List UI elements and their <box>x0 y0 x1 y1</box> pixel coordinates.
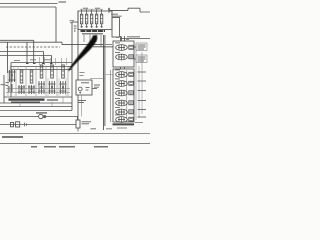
figure caption text <box>2 136 23 138</box>
crystal calibrator box <box>76 80 92 95</box>
wire bank top rail <box>80 8 103 10</box>
crystal Y1 <box>80 9 82 26</box>
oscillator label second line <box>82 33 103 35</box>
wire rf box inner y66 <box>11 66 72 68</box>
crystal Y5 <box>100 9 102 26</box>
wire y38 right <box>122 37 151 41</box>
wire into IF lower box <box>90 75 113 79</box>
wire vertical x78 <box>77 11 79 120</box>
wire link to x78 <box>72 21 78 23</box>
coil can T3 <box>40 65 43 78</box>
page footer rule upper <box>0 133 150 135</box>
wire drop x43 <box>43 52 45 65</box>
label near bus bottom <box>91 128 97 130</box>
tube V2 <box>28 85 35 94</box>
antenna arrow mark <box>108 8 110 13</box>
capacitor C1 marks <box>74 26 77 32</box>
can top wire pairs <box>40 57 67 65</box>
wire x56 vertical <box>55 7 57 42</box>
tube V201 <box>115 43 133 50</box>
cap tick pairs top <box>26 63 53 65</box>
calibrator contact dot <box>79 92 81 94</box>
IF strip bottom label <box>113 123 135 125</box>
wire antenna in x7 <box>7 42 9 73</box>
coil can T1 <box>20 70 23 83</box>
label below IF strip 2 <box>117 127 127 129</box>
fine vertical wires texture <box>8 66 68 96</box>
label right of calibrator <box>94 85 100 87</box>
label left of switch <box>78 101 86 103</box>
stubs box bottom to bus <box>20 97 63 107</box>
RF deck box <box>4 22 72 111</box>
wire stubs between boxes <box>121 67 125 69</box>
wire rf inner y92 <box>6 92 70 94</box>
coil can T5 <box>62 65 65 78</box>
wire drop x34 <box>33 40 35 64</box>
label mid page <box>92 88 97 90</box>
RF deck label strip row2 <box>11 101 40 103</box>
capacitor marks above calibrator <box>80 73 85 76</box>
wire long bus y47 solid right <box>93 46 113 48</box>
wire long bus y42 <box>0 42 104 44</box>
label right bottom <box>135 122 143 124</box>
fine vertical wires texture 2 <box>10 66 66 96</box>
antenna trim network <box>0 122 76 127</box>
wire long bus y55 <box>0 55 52 57</box>
wire rf box inner y69 <box>11 69 72 71</box>
antenna coil L1 <box>9 70 16 82</box>
tube V505 <box>115 107 146 115</box>
right vertical wires <box>136 44 142 120</box>
calibrator trimmer marks <box>86 88 90 91</box>
label right of switch <box>82 122 92 124</box>
tube V5 <box>60 81 67 94</box>
IF box upper <box>113 41 134 67</box>
tube V3 <box>38 81 45 94</box>
bus line pair <box>103 35 105 130</box>
wire top border lower <box>0 6 56 8</box>
crystal Y4 <box>95 9 97 26</box>
tube V1 <box>18 85 25 94</box>
antenna relay K1 <box>112 18 120 38</box>
wire long bus y40 <box>0 39 34 41</box>
crystal Y2 <box>85 9 87 26</box>
oscillator bank box <box>78 11 112 30</box>
label relay <box>113 16 122 17</box>
phono jack contact <box>43 115 45 118</box>
label below IF strip 1 <box>106 128 112 130</box>
wire y103 <box>0 102 72 104</box>
footer part number text <box>31 146 108 148</box>
label PHONO text <box>36 112 47 113</box>
wire y106 <box>0 106 72 108</box>
RF deck label strip <box>9 98 45 100</box>
oscillator label strip <box>81 30 106 32</box>
calibrator title text <box>81 82 89 84</box>
label small above box <box>14 59 50 62</box>
label stub ticks <box>116 38 129 40</box>
tube dark dots <box>11 74 64 90</box>
function switch S1 <box>76 120 80 128</box>
mixer info text 2 <box>138 57 146 61</box>
stub below switch <box>77 128 79 132</box>
label J-marks <box>70 21 75 23</box>
wire top border upper <box>0 3 58 5</box>
tube V4 <box>49 81 56 94</box>
bus line inner <box>110 70 112 122</box>
contact row <box>81 26 103 28</box>
wire drop x27 <box>26 42 28 64</box>
wire drop x51 <box>51 56 53 65</box>
wire y117 phono line <box>0 117 78 121</box>
phono jack J2 <box>39 114 43 118</box>
label balanced antenna <box>127 36 140 37</box>
coil can T4 <box>51 65 54 78</box>
mixer info box 2 <box>136 55 147 63</box>
wire stubs bank bottom <box>84 35 101 47</box>
tube V202 <box>115 52 133 59</box>
page footer rule lower <box>0 143 150 145</box>
tube V502 <box>115 79 146 87</box>
can caps dark <box>20 65 65 83</box>
tube V506 <box>115 115 146 123</box>
tube V504 <box>115 98 146 106</box>
label bank top <box>83 7 100 9</box>
IF box lower <box>113 69 134 122</box>
RF deck label right text <box>47 99 58 101</box>
wire long bus y51 <box>0 51 44 53</box>
wire calibrator down <box>81 95 83 117</box>
text block left of IF <box>105 45 112 47</box>
linkage dashed y47 <box>6 46 60 48</box>
wire y110 <box>0 110 58 112</box>
label top title <box>59 1 67 3</box>
calibrator tube circle <box>78 87 82 91</box>
inner column wire <box>126 70 128 118</box>
tube V501 <box>115 70 146 78</box>
wire rf inner y88 <box>6 88 70 90</box>
crystal Y3 <box>90 9 92 26</box>
mixer info text 1 <box>138 45 146 49</box>
wire left edge x4 <box>3 75 5 103</box>
scan artifact crescent <box>68 35 97 71</box>
label left edge <box>1 84 6 85</box>
mixer info box 1 <box>136 43 147 51</box>
label antenna feed <box>111 13 118 15</box>
antenna trimmer marks <box>6 83 13 93</box>
tube V503 <box>115 88 146 96</box>
wire stubs IF label boxes <box>134 47 136 59</box>
coil can T2 <box>30 70 33 83</box>
wire stair to antenna <box>109 8 150 13</box>
wire stubs top <box>121 36 125 41</box>
